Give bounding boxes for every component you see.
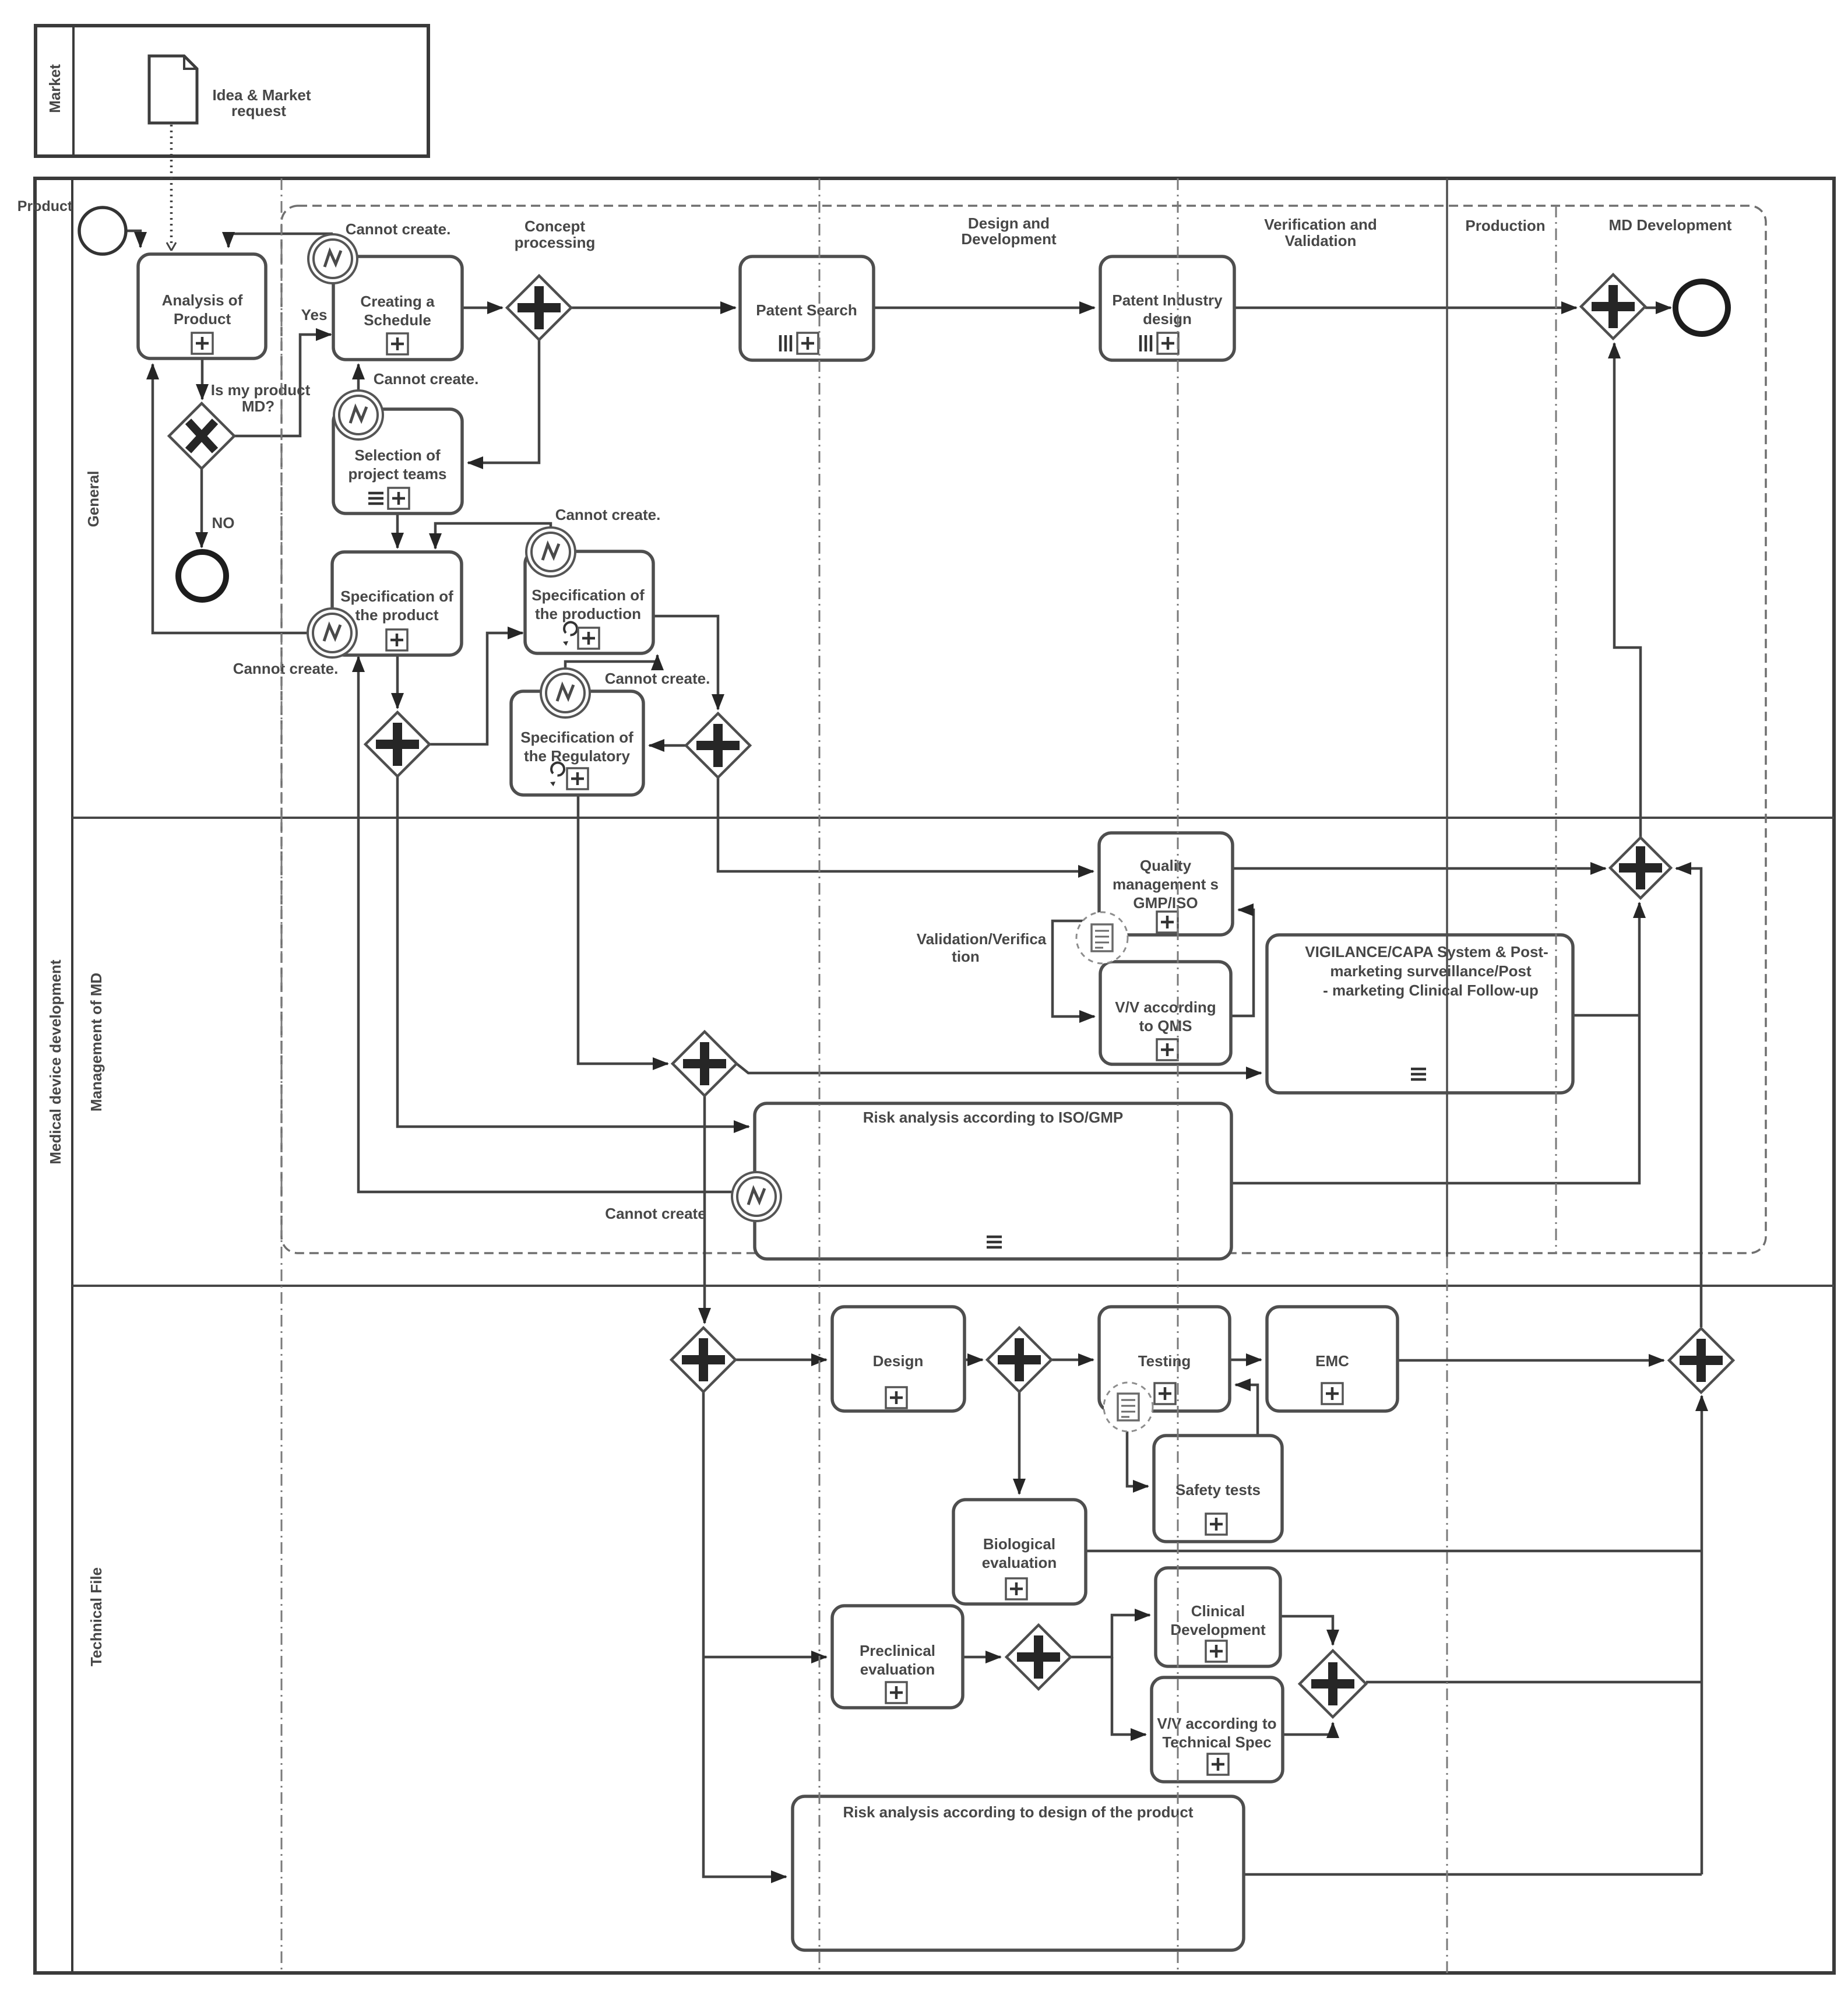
- svg-text:project teams: project teams: [348, 465, 446, 483]
- task: Safety tests: [1154, 1436, 1282, 1542]
- task: Specification of the production: [525, 551, 653, 653]
- flow: Technical vertical to Risk design: [703, 1392, 786, 1877]
- flow: Design to GT2: [965, 1359, 983, 1362]
- flow: Patent Industry design to MD gateway: [1234, 307, 1576, 309]
- lane divider General/Management: [72, 817, 1834, 819]
- boundary event: on Spec of the Regulatory: [541, 669, 590, 717]
- task: Patent Search: [740, 256, 874, 360]
- svg-text:Medical device development: Medical device development: [47, 959, 64, 1164]
- lane divider Management/Technical: [72, 1285, 1834, 1287]
- svg-text:NO: NO: [212, 514, 235, 532]
- svg-text:Production: Production: [1465, 217, 1545, 234]
- svg-text:Biological: Biological: [983, 1535, 1055, 1553]
- flow: start to Analysis of Product: [126, 231, 140, 247]
- flow: Analysis to X gateway: [201, 358, 204, 399]
- task: Selection of project teams: [333, 409, 462, 513]
- flow: Risk ISO to Mgmt right gateway: [1231, 903, 1639, 1183]
- task: Testing: [1099, 1307, 1230, 1411]
- gateway: GT5 parallel (EMC merge): [1669, 1328, 1733, 1392]
- data object: Idea & Market request: [149, 56, 197, 123]
- task: Quality management s GMP/ISO: [1099, 833, 1233, 935]
- svg-text:Cannot create.: Cannot create.: [555, 506, 661, 523]
- gateway: G3R parallel (Management right): [1610, 838, 1671, 898]
- annotation: Validation/Verification doc: [1076, 912, 1128, 963]
- flow: Patent Search to Patent Industry design: [874, 307, 1094, 309]
- svg-text:Idea & Market: Idea & Market: [212, 86, 311, 104]
- gateway: X exclusive (Is my product MD?): [169, 403, 234, 469]
- flow: G2R to Spec of the Regulatory: [649, 744, 685, 747]
- svg-text:Risk analysis according to des: Risk analysis according to design of the…: [843, 1803, 1194, 1821]
- group (dashed): [281, 206, 1766, 1253]
- task: Analysis of Product: [138, 254, 266, 358]
- start event: General start: [79, 207, 126, 254]
- svg-text:Specification of: Specification of: [520, 729, 633, 746]
- svg-text:Development: Development: [1170, 1621, 1266, 1638]
- svg-text:Validation: Validation: [1285, 232, 1357, 249]
- svg-text:Specification of: Specification of: [531, 586, 645, 604]
- svg-text:Quality: Quality: [1140, 857, 1192, 874]
- task: EMC: [1267, 1307, 1398, 1411]
- flow: G3L to Technical gateway: [703, 1096, 706, 1323]
- flow: branch to Preclinical evaluation: [703, 1656, 826, 1659]
- end event: MD Development end: [1675, 282, 1728, 334]
- svg-text:evaluation: evaluation: [982, 1554, 1057, 1571]
- flow: V/V Technical Spec to GT4: [1283, 1723, 1333, 1735]
- svg-text:MD Development: MD Development: [1609, 216, 1732, 234]
- flow: Spec of the Regulatory to G3L: [578, 795, 668, 1064]
- pool Market label divider: [72, 26, 75, 156]
- flow: Biological evaluation join: [1086, 1550, 1702, 1553]
- phase separator x=2483 (solid segment): [1446, 178, 1448, 1257]
- gateway: G2L parallel (General left): [365, 712, 430, 776]
- flow: GT3 to Clinical Development: [1071, 1615, 1150, 1657]
- flow: Quality to V/V QMS (left loop): [1053, 921, 1099, 1016]
- flow: VIGILANCE join: [1573, 1014, 1639, 1017]
- svg-text:tion: tion: [952, 948, 980, 965]
- task: V/V according to QMS: [1100, 962, 1231, 1064]
- svg-text:Product: Product: [17, 198, 73, 214]
- flow: EMC to GT5: [1398, 1359, 1664, 1362]
- task: V/V according to Technical Spec: [1152, 1677, 1283, 1782]
- task: Design: [832, 1307, 965, 1411]
- task: Preclinical evaluation: [832, 1606, 963, 1708]
- flow: G1 down to Selection of project teams: [468, 340, 539, 463]
- gateway: GT4 parallel (Clinical merge): [1300, 1651, 1366, 1717]
- svg-text:Concept: Concept: [525, 217, 585, 235]
- svg-text:Specification of: Specification of: [340, 588, 453, 605]
- flow: G3L to VIGILANCE: [737, 1064, 1261, 1073]
- gateway: GMD parallel (MD Development): [1581, 275, 1645, 339]
- svg-text:Schedule: Schedule: [364, 311, 431, 329]
- gateway: GT1 parallel (Technical entry): [671, 1328, 735, 1392]
- svg-text:General: General: [85, 471, 102, 527]
- flow: Selection to Specification of the product: [396, 513, 399, 548]
- svg-text:Is my product: Is my product: [211, 381, 311, 399]
- svg-text:VIGILANCE/CAPA System & Post-: VIGILANCE/CAPA System & Post-: [1305, 943, 1548, 961]
- flow: G2L to Spec of the production: [429, 633, 523, 744]
- svg-text:the production: the production: [535, 605, 641, 622]
- svg-text:Cannot create: Cannot create: [605, 1205, 706, 1222]
- gateway: GT2 parallel (after Design): [987, 1328, 1051, 1392]
- flow: Testing to EMC: [1230, 1359, 1261, 1362]
- flow: boundary to Creating a Schedule bottom: [357, 364, 360, 391]
- svg-text:Patent Search: Patent Search: [756, 301, 857, 319]
- flow: GT4 join: [1366, 1681, 1702, 1684]
- phase separator x=2670: [1555, 206, 1557, 1253]
- flow: V/V QMS to Quality (right loop): [1231, 910, 1254, 1016]
- phase separator x=2021: [1177, 178, 1179, 1973]
- svg-text:Verification and: Verification and: [1264, 216, 1377, 233]
- svg-text:Product: Product: [174, 310, 231, 328]
- svg-text:Cannot create.: Cannot create.: [605, 670, 710, 687]
- flow: GT2 to Testing: [1051, 1359, 1093, 1362]
- svg-text:Market: Market: [46, 64, 64, 113]
- flow: X gateway to end event (NO): [200, 469, 203, 547]
- svg-text:processing: processing: [515, 234, 596, 251]
- flow: G2R to Quality management: [718, 778, 1093, 871]
- flow: risk boundary loop to Spec of the product: [358, 657, 731, 1192]
- flow: Quality management to Mgmt right gateway: [1233, 867, 1606, 870]
- svg-text:the Regulatory: the Regulatory: [524, 747, 631, 765]
- flow: MD gateway to end event: [1645, 307, 1671, 309]
- task: Specification of the Regulatory: [511, 691, 643, 795]
- svg-text:to QMS: to QMS: [1139, 1017, 1192, 1035]
- gateway: G1 parallel after Creating a Schedule: [507, 276, 571, 340]
- boundary event: on Risk ISO (left): [732, 1172, 781, 1221]
- svg-text:Validation/Verifica: Validation/Verifica: [917, 930, 1047, 948]
- flow: Clinical Development to GT4: [1280, 1616, 1333, 1645]
- svg-text:GMP/ISO: GMP/ISO: [1133, 894, 1198, 912]
- flow: Creating a Schedule to G1: [462, 307, 502, 309]
- flow: Safety tests to Testing: [1235, 1385, 1258, 1436]
- boundary event: on Selection of project teams: [334, 391, 383, 439]
- svg-text:Analysis of: Analysis of: [162, 291, 243, 309]
- gateway: G3L parallel (Management left): [673, 1032, 737, 1096]
- task: Biological evaluation: [953, 1500, 1086, 1604]
- svg-text:Risk analysis according to ISO: Risk analysis according to ISO/GMP: [863, 1109, 1123, 1126]
- gateway: GT3 parallel (after Preclinical): [1006, 1625, 1071, 1689]
- svg-text:Testing: Testing: [1138, 1352, 1191, 1370]
- flow: Mgmt right gateway up to MD gateway: [1614, 343, 1641, 838]
- svg-text:marketing surveillance/Post: marketing surveillance/Post: [1330, 962, 1532, 980]
- flow: Spec of the product to G2L: [396, 655, 399, 708]
- svg-text:MD?: MD?: [242, 398, 274, 415]
- svg-text:- marketing Clinical Follow-up: - marketing Clinical Follow-up: [1323, 982, 1539, 999]
- svg-text:Cannot create.: Cannot create.: [346, 220, 451, 238]
- boundary event: on Spec of the product (left): [308, 608, 357, 657]
- svg-text:Safety tests: Safety tests: [1175, 1481, 1261, 1498]
- phase separator x=483: [281, 178, 283, 1973]
- boundary event: on Spec of the production: [526, 527, 575, 576]
- phase separator x=2483 (dashed segment): [1446, 1257, 1448, 1973]
- task: Specification of the product: [332, 552, 462, 655]
- flow: Spec of the production to G2R: [653, 616, 718, 709]
- task: Patent Industry design: [1100, 256, 1234, 360]
- svg-text:evaluation: evaluation: [860, 1661, 935, 1678]
- flow: Preclinical to GT3: [963, 1656, 1001, 1659]
- svg-text:Preclinical: Preclinical: [860, 1642, 935, 1659]
- pool: Market: [36, 26, 428, 156]
- task: Creating a Schedule: [333, 256, 462, 360]
- flow: GT5 up to Mgmt right gateway: [1676, 868, 1701, 1327]
- pool Product label divider: [71, 178, 73, 1973]
- svg-text:EMC: EMC: [1315, 1352, 1349, 1370]
- boundary event: on Creating a Schedule: [308, 234, 357, 283]
- svg-text:request: request: [231, 102, 286, 119]
- svg-text:Design and: Design and: [968, 214, 1050, 232]
- task: Clinical Development: [1156, 1568, 1280, 1666]
- svg-text:V/V according to: V/V according to: [1157, 1715, 1276, 1732]
- flow: G2L to Risk ISO: [397, 776, 749, 1127]
- svg-text:Clinical: Clinical: [1191, 1602, 1245, 1620]
- flow: boundary(Regulatory) to Spec of the production: [565, 655, 657, 669]
- svg-text:Selection of: Selection of: [354, 446, 441, 464]
- svg-text:Patent Industry: Patent Industry: [1112, 291, 1223, 309]
- svg-text:V/V according: V/V according: [1115, 998, 1216, 1016]
- svg-text:Cannot create.: Cannot create.: [374, 370, 479, 388]
- svg-text:management s: management s: [1113, 875, 1219, 893]
- svg-text:Management of MD: Management of MD: [87, 973, 105, 1111]
- flow: Risk design join: [1244, 1873, 1702, 1876]
- task: Risk analysis according to ISO/GMP: [755, 1103, 1231, 1259]
- svg-text:Cannot create.: Cannot create.: [233, 660, 339, 677]
- flow: G1 to Patent Search: [571, 307, 735, 309]
- flow: cannot-create loop to Analysis bottom: [153, 364, 307, 633]
- flow: joined vertical to GT5: [1701, 1396, 1703, 1874]
- flow: Technical gateway to Design: [735, 1359, 826, 1362]
- flow: cannot-create loop to Analysis top: [228, 234, 333, 247]
- svg-text:design: design: [1143, 310, 1192, 328]
- svg-text:Creating a: Creating a: [360, 293, 435, 310]
- flow: X gateway to Creating a Schedule (Yes): [234, 335, 331, 436]
- svg-text:Yes: Yes: [301, 306, 328, 323]
- flow: boundary(production) to Spec of the product: [435, 523, 551, 548]
- svg-text:Design: Design: [873, 1352, 924, 1370]
- flow: Testing to Safety tests: [1127, 1411, 1148, 1486]
- svg-text:Development: Development: [961, 230, 1057, 248]
- flow: message: Idea & Market request to Analysis (dotted): [170, 125, 173, 245]
- flow: GT2 to Biological evaluation: [1018, 1392, 1021, 1494]
- message arrowhead: [167, 242, 176, 251]
- svg-text:the product: the product: [355, 606, 439, 624]
- phase separator x=1406: [819, 178, 821, 1973]
- annotation: Testing doc: [1104, 1383, 1153, 1431]
- svg-text:Technical File: Technical File: [87, 1567, 105, 1666]
- task: VIGILANCE/CAPA: [1267, 935, 1573, 1093]
- flow: GT3 to V/V Technical Spec: [1112, 1657, 1146, 1735]
- end event: General end (NO): [178, 552, 226, 600]
- task: Risk analysis according to design of the product: [793, 1796, 1244, 1950]
- gateway: G2R parallel (General right): [686, 713, 750, 778]
